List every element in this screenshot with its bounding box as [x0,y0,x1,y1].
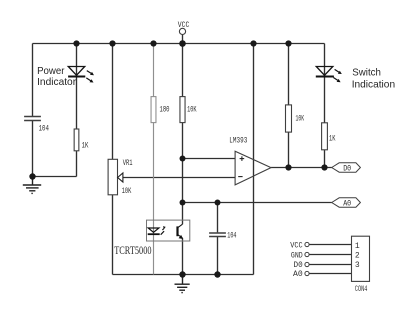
svg-text:D0: D0 [343,164,351,173]
svg-text:1: 1 [355,242,360,251]
svg-text:TCRT5000: TCRT5000 [114,245,152,257]
svg-text:Switch: Switch [352,67,381,79]
svg-text:A0: A0 [343,199,351,208]
svg-text:10K: 10K [187,106,197,115]
svg-text:GND: GND [291,251,303,260]
svg-text:A0: A0 [293,270,303,279]
svg-text:104: 104 [227,231,236,240]
svg-text:1K: 1K [82,141,89,150]
svg-text:1K: 1K [329,135,336,144]
svg-text:104: 104 [39,124,50,133]
svg-text:10K: 10K [296,114,305,123]
svg-text:Indicator: Indicator [37,76,76,88]
svg-text:VCC: VCC [290,242,303,251]
svg-text:2: 2 [355,252,360,261]
svg-text:D0: D0 [294,261,303,270]
svg-text:3: 3 [355,261,360,270]
svg-text:10K: 10K [122,187,132,196]
svg-text:VCC: VCC [178,21,190,30]
svg-text:CON4: CON4 [355,285,368,294]
svg-text:Indication: Indication [352,78,396,90]
svg-text:VR1: VR1 [123,159,133,168]
svg-text:LM393: LM393 [229,137,247,146]
svg-text:180: 180 [160,106,170,115]
